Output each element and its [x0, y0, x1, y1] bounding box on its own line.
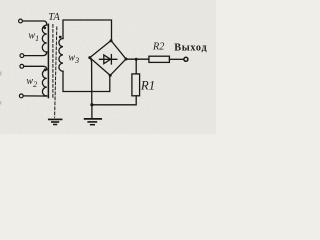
terminal T2 (w1 bottom): [20, 54, 24, 58]
terminal T4 (w2 bottom): [19, 94, 23, 98]
wire ground node to R1 bottom: [92, 96, 136, 105]
edge speck 2: [0, 101, 1, 105]
wire junction to R1 top: [135, 59, 137, 74]
polarity dot w2: [44, 68, 47, 71]
winding w1: [42, 25, 47, 52]
svg-text:Выход: Выход: [174, 42, 207, 53]
svg-text:R1: R1: [140, 79, 155, 93]
node R1/R2 junction: [135, 58, 138, 61]
wire R2 to output: [169, 58, 183, 60]
node left corner: [88, 56, 91, 59]
diode VD cathode bar: [110, 55, 112, 64]
polarity dot w3: [59, 36, 62, 39]
diode VD axis: [100, 58, 117, 60]
terminal T1 (w1 top): [19, 19, 23, 23]
output terminal: [184, 57, 188, 61]
wire bridge right corner to R2: [126, 58, 149, 60]
node top corner: [110, 39, 113, 42]
resistor R2: [149, 56, 170, 62]
wire T3 to w2 top: [24, 66, 47, 69]
diode bridge diamond: [90, 41, 126, 76]
svg-text:TA: TA: [48, 12, 60, 23]
core dashed line: [52, 25, 54, 99]
winding w3: [59, 39, 63, 72]
wire w3 bottom to bridge bottom: [63, 71, 110, 91]
wire w1 bottom to T2: [24, 52, 47, 56]
wire bridge left corner to ground node: [90, 58, 92, 105]
node bottom corner: [109, 74, 112, 77]
terminal T3 (w2 top): [20, 64, 24, 68]
edge speck 1: [0, 72, 2, 76]
screen dashed line: [55, 27, 57, 117]
winding w2: [42, 70, 46, 96]
resistor R1: [132, 74, 140, 96]
wire T1 to w1 top: [23, 21, 47, 25]
svg-text:R2: R2: [152, 42, 164, 53]
wire w3 top / top rail: [63, 20, 112, 41]
ground node dot: [90, 103, 93, 106]
screen ground symbol: [49, 118, 62, 120]
polarity dot w1: [43, 26, 46, 29]
wire w2 bottom to T4: [24, 95, 47, 97]
node right corner: [125, 58, 128, 61]
diode VD triangle: [104, 55, 111, 64]
ground symbol: [91, 105, 93, 118]
core solid line: [47, 24, 49, 97]
